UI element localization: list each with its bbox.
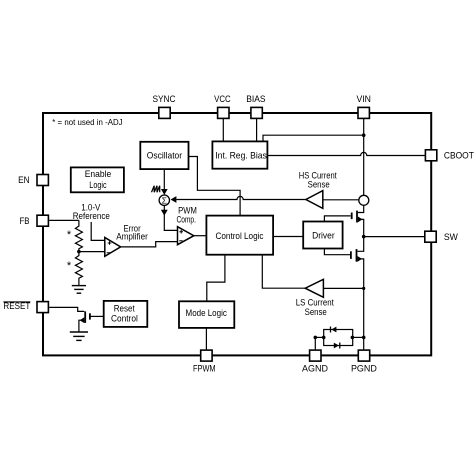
Q3 channel bar (84, 311, 86, 323)
Q1 body arrow (358, 217, 363, 223)
svg-text:SYNC: SYNC (152, 94, 175, 104)
svg-text:Comp.: Comp. (176, 215, 196, 225)
Q2 body arrow (357, 256, 362, 262)
pin FPWM (201, 350, 212, 361)
transistor Q3: reset open-drain FET (mirrored) (79, 311, 104, 331)
svg-text:*: * (67, 260, 72, 272)
svg-text:FB: FB (20, 216, 30, 226)
Q1 gate bar (351, 213, 353, 220)
junction dot on VIN rail (362, 133, 366, 137)
block: Enable Logic (71, 167, 124, 192)
pin BIAS (251, 107, 262, 118)
svg-text:Driver: Driver (312, 230, 335, 241)
wire: Control Logic to LS current sense output (262, 255, 305, 289)
resistor R2 (lower feedback divider) (75, 252, 82, 286)
wire: Mode Logic to FPWM (205, 328, 207, 352)
svg-text:CBOOT: CBOOT (444, 151, 474, 161)
Q2 channel bar (356, 249, 358, 262)
wire: VIN down to HS current sense element (363, 116, 365, 195)
wire: sense element to HS current sense amp (323, 199, 359, 201)
svg-text:FPWM: FPWM (193, 363, 216, 373)
svg-text:Reset: Reset (114, 304, 135, 314)
junction dot on PGND rail (362, 287, 365, 290)
svg-text:Control: Control (111, 314, 138, 324)
wire: BIAS to Int. Reg. Bias (256, 116, 258, 142)
pin EN (37, 175, 48, 186)
current sense element (circle) on VIN path (359, 195, 369, 205)
svg-text:Oscillator: Oscillator (147, 151, 182, 161)
arrowhead into sigma right (171, 196, 177, 203)
svg-text:VIN: VIN (356, 94, 371, 104)
wire: LS FET source to LS current sense amp (323, 287, 363, 289)
Q2 drain lead (357, 237, 363, 252)
amp: LS current sense (points left) (305, 279, 323, 297)
pin FB (37, 215, 48, 226)
wire: RESET pin to Q3 drain (49, 307, 84, 311)
svg-text:Int. Reg. Bias: Int. Reg. Bias (215, 150, 267, 160)
block: Oscillator (140, 142, 188, 169)
wire: Oscillator clock to Control Logic top (189, 157, 241, 216)
svg-text:VCC: VCC (214, 94, 231, 104)
Q2 gate bar (350, 251, 352, 259)
arrowhead on sigma output (161, 210, 168, 216)
block: Driver (303, 222, 342, 249)
transistor Q2: LS power FET (351, 237, 364, 350)
svg-text:PGND: PGND (351, 363, 377, 373)
pin SW (425, 231, 436, 242)
pin PGND (358, 350, 369, 361)
Q2 source lead (357, 259, 363, 350)
svg-text:SW: SW (444, 232, 458, 242)
svg-text:Control Logic: Control Logic (216, 230, 264, 241)
svg-text:Reference: Reference (73, 211, 110, 221)
op-amp: error amplifier (105, 238, 121, 257)
op-amp: PWM comparator (178, 227, 194, 245)
diode D2 (bottom, pointing right) (334, 343, 339, 349)
wire: error amp output to PWM comparator - input (121, 242, 178, 247)
svg-text:Amplifier: Amplifier (116, 232, 148, 242)
svg-text:EN: EN (18, 175, 30, 185)
wire: diode pair to PGND rail (353, 336, 364, 338)
junction dot: AGND stub joins diode loop (322, 336, 326, 340)
wire: Control Logic to Driver (273, 236, 303, 238)
diode pair loop between AGND and PGND (324, 330, 353, 346)
wire: Int. Reg. Bias top stub to VIN rail (263, 135, 364, 142)
wire: Int. Reg. Bias to CBOOT with hop over VIN rail (267, 152, 425, 155)
wire: PWM comparator to Control Logic (194, 235, 207, 237)
wire: HS current sense output to sigma with hop over clock wire (177, 196, 306, 199)
diode D1 (top, pointing left) (331, 327, 336, 333)
Q3 body arrow (80, 317, 85, 323)
svg-text:*: * (67, 229, 72, 241)
Q1 source lead (358, 219, 364, 236)
wire: sigma output to PWM comparator + input (164, 205, 177, 230)
resistor R1 (upper feedback divider) (75, 220, 82, 251)
pin AGND (310, 350, 321, 361)
pin SYNC (159, 107, 170, 118)
wire: divider mid to error amp - input (79, 251, 105, 253)
wire: FB to divider top (49, 219, 79, 221)
wire: Control Logic to Mode Logic (207, 255, 225, 302)
svg-text:RESET: RESET (3, 301, 30, 311)
wire: VCC to Int. Reg. Bias (222, 116, 224, 142)
amp: HS current sense (points left) (306, 191, 323, 209)
svg-text:Mode Logic: Mode Logic (186, 308, 228, 318)
wire: Driver to LS FET gate (324, 249, 351, 255)
junction: SW node (362, 235, 366, 239)
ground: below divider (72, 286, 86, 294)
arrowhead into sigma top (161, 189, 168, 195)
node: divider midpoint (77, 250, 81, 254)
sawtooth ramp symbol (152, 186, 160, 193)
Q1 channel bar (356, 211, 358, 223)
summing node sigma (159, 195, 169, 205)
transistor Q1: HS power FET (352, 205, 364, 236)
svg-text:BIAS: BIAS (246, 94, 265, 104)
pin RESET (with overline) (37, 302, 48, 313)
IC outline border (43, 113, 431, 355)
svg-text:Σ: Σ (162, 196, 167, 206)
block: Int. Reg. Bias (212, 141, 267, 168)
wire: Driver to HS FET gate (324, 216, 350, 222)
pin VCC (218, 107, 229, 118)
pin VIN (358, 107, 369, 118)
block: Control Logic (206, 216, 273, 255)
svg-text:Logic: Logic (89, 180, 107, 190)
wire: AGND to diode pair (314, 337, 316, 349)
wire: 1.0-V reference to error amp + input (91, 222, 105, 240)
svg-text:AGND: AGND (302, 363, 328, 373)
block: Mode Logic (179, 301, 234, 328)
Q3 source lead (79, 320, 84, 332)
wire: Oscillator to sigma (down) (163, 169, 165, 190)
Q1 drain lead (358, 205, 364, 212)
Q3 gate lead (90, 315, 104, 317)
svg-text:Sense: Sense (308, 180, 330, 190)
svg-text:Enable: Enable (85, 169, 112, 179)
ground: below Q3 (70, 332, 88, 340)
svg-text:Sense: Sense (305, 307, 327, 317)
pin CBOOT (425, 150, 436, 161)
wire: SW node to SW pin (364, 236, 424, 238)
svg-text:* = not used in -ADJ: * = not used in -ADJ (52, 117, 122, 127)
Q3 gate bar (89, 313, 91, 319)
block: Reset Control (104, 301, 148, 327)
